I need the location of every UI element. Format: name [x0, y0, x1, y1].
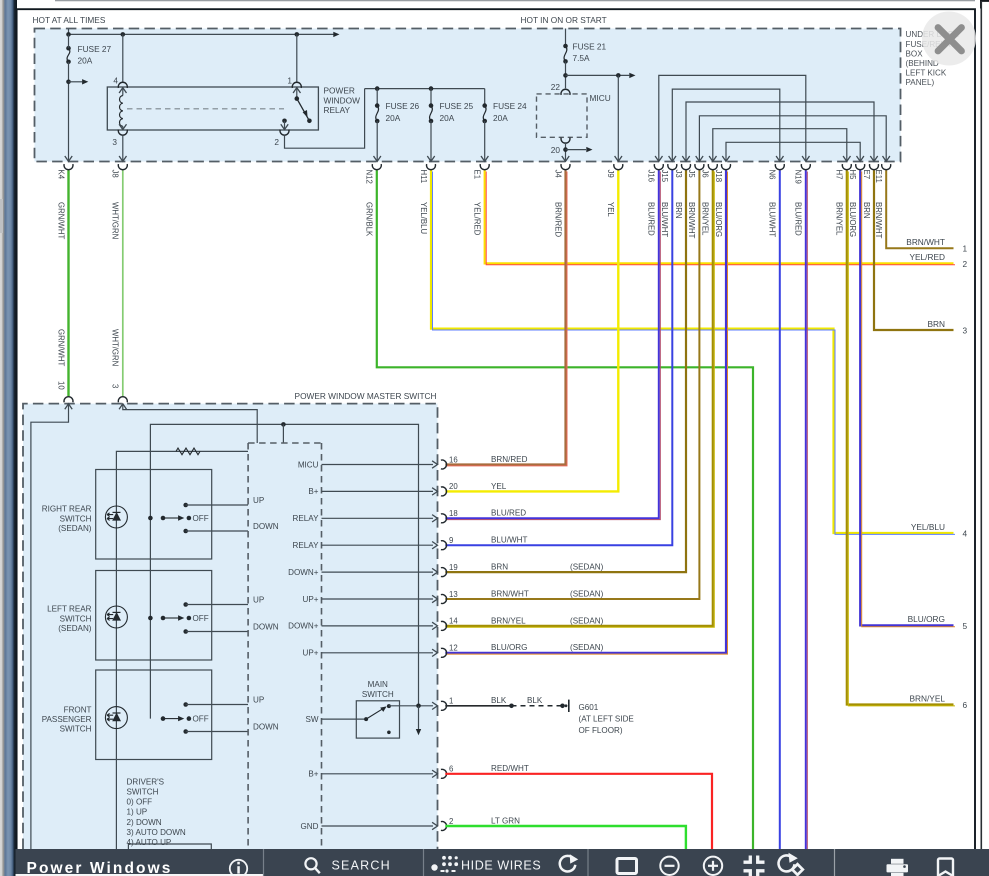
- ignition feed stub from top edge: [565, 29, 567, 47]
- wire MICU pin20 to J4 exit: [565, 142, 567, 161]
- zoom out icon: [660, 857, 678, 875]
- info icon: [230, 860, 247, 876]
- svg-text:19: 19: [449, 563, 458, 572]
- right rear switch OFF contact: [161, 516, 166, 521]
- relay pin 1 entry arrow: [293, 88, 300, 93]
- svg-text:YEL/BLU: YEL/BLU: [419, 202, 428, 234]
- wire LT GRN: [445, 826, 686, 849]
- svg-text:UP: UP: [253, 496, 264, 505]
- svg-text:20: 20: [449, 482, 458, 491]
- wire WHT/GRN from J8: [122, 170, 124, 396]
- right rear switch motor symbol: [105, 506, 127, 528]
- svg-text:(AT LEFT SIDE: (AT LEFT SIDE: [579, 715, 635, 724]
- svg-text:3) AUTO DOWN: 3) AUTO DOWN: [127, 828, 186, 837]
- underlying page right edge top segment: [981, 1, 989, 9]
- wire J9 drop inside box: [617, 75, 619, 161]
- MICU pin 22 connector bracket: [561, 89, 570, 95]
- connector J18 bracket: [722, 164, 731, 170]
- svg-text:FRONT: FRONT: [64, 705, 92, 714]
- svg-text:BLK: BLK: [491, 696, 507, 705]
- connector J4 bracket: [561, 164, 570, 170]
- svg-text:YEL/RED: YEL/RED: [473, 202, 482, 236]
- svg-text:J4: J4: [553, 170, 562, 179]
- relay pin 4 connector bracket: [118, 82, 127, 88]
- svg-text:5: 5: [963, 621, 968, 631]
- wire RED/WHT: [445, 774, 712, 849]
- svg-text:UP+: UP+: [303, 649, 319, 658]
- arrow K4 wire exits box: [65, 156, 72, 161]
- toolbar divider 3: [587, 849, 589, 876]
- top feed bus wire: [69, 33, 334, 35]
- svg-text:BLU/RED: BLU/RED: [794, 202, 803, 236]
- svg-text:2) DOWN: 2) DOWN: [127, 818, 162, 827]
- svg-text:RELAY: RELAY: [324, 105, 351, 115]
- svg-text:SW: SW: [305, 715, 318, 724]
- wire BRN/WHT from J5: [445, 170, 699, 599]
- search icon: [305, 858, 316, 869]
- svg-text:BLU/WHT: BLU/WHT: [660, 202, 669, 237]
- bridge wire J18-H5: [726, 142, 860, 161]
- svg-text:FUSE 21: FUSE 21: [573, 42, 607, 52]
- svg-text:PASSENGER: PASSENGER: [42, 715, 92, 724]
- pin20 branch arrow: [566, 149, 587, 151]
- fuse F24 symbol: [482, 103, 487, 108]
- inner block top dashed edge: [248, 442, 321, 444]
- wire BRN from J3: [445, 170, 686, 572]
- bridge wire J3-E7: [686, 102, 874, 161]
- under-dash fuse/relay box (dashed, blue fill): [35, 29, 901, 162]
- power window master switch box (dashed, blue fill): [23, 404, 438, 849]
- svg-text:18: 18: [449, 509, 458, 518]
- relay pin 2 exit arrow: [284, 121, 286, 130]
- svg-text:OFF: OFF: [193, 715, 209, 724]
- arrow J9 wire exits box: [615, 156, 622, 161]
- svg-text:E7: E7: [862, 170, 871, 180]
- svg-text:10: 10: [56, 381, 65, 390]
- branch wire to J9 and arrow: [566, 74, 630, 76]
- connector N19 bracket: [801, 164, 810, 170]
- svg-text:HOT IN ON OR START: HOT IN ON OR START: [521, 15, 607, 25]
- branch arrow right of fuse27: [69, 81, 83, 83]
- relay pin 2 connector bracket: [280, 130, 289, 136]
- svg-text:DOWN+: DOWN+: [288, 568, 319, 577]
- svg-text:3: 3: [963, 325, 968, 335]
- svg-text:BRN: BRN: [927, 319, 945, 329]
- wire to fuse25: [430, 89, 432, 106]
- wire BRN/WHT from E11: [886, 170, 953, 248]
- svg-text:BLU/ORG: BLU/ORG: [848, 202, 857, 237]
- svg-text:FUSE 26: FUSE 26: [386, 101, 420, 111]
- wire GRN/BLK from N12: [377, 170, 753, 849]
- svg-text:14: 14: [449, 617, 458, 626]
- svg-text:BLU/WHT: BLU/WHT: [491, 536, 527, 545]
- svg-text:12: 12: [449, 644, 458, 653]
- svg-text:SEARCH: SEARCH: [332, 859, 391, 873]
- svg-text:RELAY: RELAY: [293, 514, 320, 523]
- svg-text:N6: N6: [768, 170, 777, 180]
- svg-text:DRIVER'S: DRIVER'S: [127, 777, 165, 786]
- junction pin20 branch: [563, 147, 568, 152]
- svg-text:BRN: BRN: [862, 202, 871, 218]
- svg-text:GRN/BLK: GRN/BLK: [365, 202, 374, 237]
- main switch up contact: [387, 704, 391, 708]
- connector N6 bracket: [775, 164, 784, 170]
- svg-text:4: 4: [113, 75, 118, 85]
- svg-text:HIDE WIRES: HIDE WIRES: [461, 859, 541, 873]
- svg-text:N12: N12: [365, 170, 374, 184]
- svg-text:LEFT REAR: LEFT REAR: [47, 605, 92, 614]
- wire fuse21 to junction: [565, 61, 567, 88]
- svg-text:GRN/WHT: GRN/WHT: [56, 202, 65, 239]
- left rear switch motor symbol: [105, 606, 127, 628]
- bridge wire J16-N19: [659, 75, 806, 161]
- connector H11 bracket: [427, 164, 436, 170]
- toolbar divider 4: [834, 849, 836, 876]
- wire BRN/RED from J4: [445, 170, 565, 464]
- ground G601 terminal: [560, 704, 565, 709]
- wire BLU/ORG from H5: [860, 170, 953, 625]
- svg-text:4) AUTO UP: 4) AUTO UP: [127, 838, 172, 847]
- junction fuse21 branch: [563, 73, 568, 78]
- svg-text:BRN/RED: BRN/RED: [491, 455, 528, 464]
- wire BRN from E7: [874, 170, 954, 330]
- resistor R: [176, 448, 200, 455]
- feed bus end arrow: [333, 32, 339, 37]
- svg-text:H7: H7: [835, 170, 844, 180]
- wire to fuse26: [376, 89, 378, 106]
- svg-text:6: 6: [449, 765, 453, 774]
- svg-text:UP: UP: [253, 596, 264, 605]
- svg-text:YEL: YEL: [606, 202, 615, 217]
- browser window top edge line: [55, 0, 975, 2]
- junction pin1-vertical: [416, 704, 421, 709]
- wire resistor feed rail: [116, 451, 248, 849]
- main switch lever: [364, 717, 368, 721]
- arrow J8 wire exits box: [119, 156, 126, 161]
- svg-text:0) OFF: 0) OFF: [127, 798, 153, 807]
- pin 3 entry arrow: [119, 404, 126, 409]
- svg-text:20: 20: [551, 145, 561, 155]
- wire to fuse24: [484, 89, 486, 106]
- fuse F21 symbol: [563, 44, 568, 49]
- fuse F25 symbol: [429, 103, 434, 108]
- svg-text:BRN/WHT: BRN/WHT: [491, 589, 529, 598]
- connector H7 bracket: [842, 164, 851, 170]
- relay pin 1 connector bracket: [292, 82, 301, 88]
- left rear switch OFF contact: [161, 616, 166, 621]
- wire relay pin2 to fuse feed: [285, 89, 365, 149]
- bridge wire J15-N6: [672, 89, 780, 161]
- front passenger switch UP contact: [183, 702, 188, 707]
- connector J5 bracket: [695, 164, 704, 170]
- junction bus-relay pin1: [295, 32, 300, 37]
- active tab underline: [16, 874, 264, 876]
- dashed BLK segment: [512, 705, 563, 707]
- main switch box: [356, 701, 399, 738]
- svg-text:BLU/ORG: BLU/ORG: [908, 614, 945, 624]
- junction rail-off2: [148, 616, 153, 621]
- arrow N12 wire exits box: [374, 156, 381, 161]
- svg-text:(SEDAN): (SEDAN): [570, 643, 604, 652]
- svg-text:1: 1: [963, 244, 968, 254]
- svg-text:J5: J5: [687, 170, 696, 179]
- svg-text:POWER: POWER: [324, 86, 355, 96]
- MICU pin 20 connector bracket: [561, 138, 570, 144]
- wire pin10 internal (left rail): [31, 404, 69, 849]
- arrow J4 wire exits box: [562, 156, 569, 161]
- hide wires icon: [431, 864, 437, 870]
- front passenger switch DOWN contact: [183, 729, 188, 734]
- svg-text:BRN/YEL: BRN/YEL: [701, 202, 710, 236]
- svg-text:SWITCH: SWITCH: [362, 690, 394, 699]
- front passenger switch box: [96, 670, 212, 760]
- svg-text:FUSE 25: FUSE 25: [440, 101, 474, 111]
- MICU box (dashed): [537, 94, 588, 137]
- connector N12 bracket: [372, 164, 381, 170]
- svg-text:3: 3: [112, 137, 117, 147]
- left rear switch DOWN contact: [183, 629, 188, 634]
- connector J6 bracket: [708, 164, 717, 170]
- svg-text:20A: 20A: [78, 55, 93, 65]
- wire YEL/BLU from H11: [431, 170, 954, 533]
- svg-text:13: 13: [449, 590, 458, 599]
- svg-text:SWITCH: SWITCH: [127, 788, 159, 797]
- svg-text:1: 1: [287, 75, 292, 85]
- left strip scrollbar patch: [0, 199, 3, 233]
- svg-text:9: 9: [449, 536, 453, 545]
- junction feed-fuse25: [429, 86, 434, 91]
- connector J3 bracket: [682, 164, 691, 170]
- wire fuse24 to E1 exit: [484, 121, 486, 161]
- junction rail-off1: [148, 516, 153, 521]
- svg-text:J3: J3: [674, 170, 683, 178]
- svg-text:WHT/GRN: WHT/GRN: [111, 329, 120, 366]
- svg-text:OFF: OFF: [193, 514, 209, 523]
- connector J15 bracket: [668, 164, 677, 170]
- wire BLU/WHT from N6: [779, 170, 781, 849]
- svg-text:BLU/RED: BLU/RED: [647, 202, 656, 236]
- pin 10 entry bracket: [64, 397, 73, 403]
- svg-text:BRN/RED: BRN/RED: [553, 202, 562, 237]
- svg-text:2: 2: [449, 817, 453, 826]
- svg-text:J18: J18: [714, 170, 723, 183]
- svg-text:BLK: BLK: [527, 696, 543, 705]
- wire bus to relay pin 1: [296, 34, 298, 81]
- svg-text:DOWN: DOWN: [253, 522, 279, 531]
- wire pin3 internal: [123, 404, 257, 443]
- connector K4 bracket: [64, 164, 73, 170]
- wire BLU/ORG from J18: [445, 170, 726, 653]
- svg-text:UP: UP: [253, 696, 264, 705]
- junction fuse27 branch: [66, 80, 71, 85]
- svg-text:22: 22: [551, 82, 561, 92]
- inner block left dashed edge: [247, 443, 249, 849]
- svg-text:LT GRN: LT GRN: [491, 816, 520, 825]
- svg-text:SWITCH: SWITCH: [60, 724, 92, 733]
- junction bus-relay pin4: [121, 32, 126, 37]
- svg-text:BRN/WHT: BRN/WHT: [906, 237, 945, 247]
- svg-text:J8: J8: [111, 170, 120, 178]
- wire fuse26 to N12 exit: [376, 121, 378, 161]
- window left edge strip: [0, 0, 17, 876]
- svg-text:DOWN+: DOWN+: [288, 622, 319, 631]
- arrow H11 wire exits box: [427, 156, 434, 161]
- svg-text:J16: J16: [647, 170, 656, 183]
- svg-text:2: 2: [274, 137, 279, 147]
- pin 1 row wire: [389, 705, 433, 707]
- svg-text:N19: N19: [794, 170, 803, 184]
- svg-text:B+: B+: [308, 487, 318, 496]
- svg-text:4: 4: [963, 528, 968, 538]
- bottom toolbar: [16, 849, 989, 876]
- front passenger switch OFF contact: [161, 716, 166, 721]
- connector J8 bracket: [118, 164, 127, 170]
- toolbar divider 1: [263, 849, 265, 876]
- svg-text:H11: H11: [419, 170, 428, 184]
- relay coil: [120, 96, 123, 127]
- svg-text:HOT AT ALL TIMES: HOT AT ALL TIMES: [33, 15, 106, 25]
- svg-text:20A: 20A: [493, 113, 508, 123]
- svg-text:MICU: MICU: [298, 460, 319, 469]
- bridge wire J6-H7: [713, 129, 847, 162]
- svg-text:BRN/WHT: BRN/WHT: [687, 202, 696, 239]
- connector J9 bracket: [614, 164, 623, 170]
- right rear switch box: [96, 470, 212, 560]
- zoom in icon: [704, 857, 722, 875]
- svg-text:Power Windows: Power Windows: [27, 860, 173, 876]
- svg-text:(SEDAN): (SEDAN): [58, 524, 92, 533]
- arrow below junction: [418, 706, 420, 729]
- wire bus to relay pin 4: [122, 34, 124, 81]
- front passenger switch motor symbol: [105, 707, 127, 729]
- svg-text:BRN: BRN: [491, 563, 508, 572]
- bookmark icon: [938, 859, 953, 876]
- junction BLK: [509, 704, 514, 709]
- connector J16 bracket: [654, 164, 663, 170]
- wire fuse27 to K4 exit: [68, 34, 70, 48]
- svg-text:GRN/WHT: GRN/WHT: [56, 329, 65, 366]
- junction feed-fuse26: [375, 86, 380, 91]
- wire YEL from J9: [445, 170, 618, 491]
- stop/full icon: [617, 859, 637, 874]
- svg-text:BOX: BOX: [906, 49, 924, 58]
- svg-text:SWITCH: SWITCH: [60, 614, 92, 623]
- junction switched rail to block: [281, 422, 286, 427]
- wire YEL/RED from E1: [485, 170, 954, 263]
- wire BLU/RED from N19: [805, 170, 807, 849]
- compress icon: [744, 856, 765, 876]
- svg-text:RIGHT REAR: RIGHT REAR: [42, 505, 92, 514]
- print icon: [891, 859, 904, 864]
- relay switch contact common: [295, 96, 300, 101]
- refresh icon: [560, 856, 576, 872]
- svg-text:OFF: OFF: [193, 614, 209, 623]
- svg-text:J15: J15: [660, 170, 669, 183]
- right rear switch DOWN contact: [183, 529, 188, 534]
- wire BLK pin1: [445, 705, 511, 707]
- wire relay pin3 to J8 exit: [122, 135, 124, 161]
- svg-text:16: 16: [449, 455, 458, 464]
- fuse F27 symbol: [66, 46, 71, 51]
- main switch down contact: [387, 731, 391, 735]
- svg-text:7.5A: 7.5A: [573, 53, 591, 63]
- svg-text:LEFT KICK: LEFT KICK: [906, 69, 947, 78]
- svg-text:POWER WINDOW MASTER SWITCH: POWER WINDOW MASTER SWITCH: [295, 391, 437, 401]
- left rear switch box: [96, 571, 212, 661]
- relay pin 2 contact: [282, 119, 287, 124]
- connector H5 bracket: [856, 164, 865, 170]
- arrow E1 wire exits box: [481, 156, 488, 161]
- svg-text:BLU/RED: BLU/RED: [491, 509, 526, 518]
- relay pin 3 connector bracket: [118, 130, 127, 136]
- svg-text:GND: GND: [301, 822, 319, 831]
- wire BRN/YEL from J6: [445, 170, 713, 626]
- svg-text:BLU/ORG: BLU/ORG: [714, 202, 723, 237]
- inner block right dashed edge: [321, 443, 323, 849]
- relay pin 3 exit arrow inside: [119, 124, 126, 129]
- svg-text:(SEDAN): (SEDAN): [570, 589, 604, 598]
- power feed stub from top edge: [68, 29, 70, 35]
- relay switch lever: [297, 99, 310, 121]
- wire BLU/WHT from J15: [445, 170, 672, 545]
- svg-text:BRN/YEL: BRN/YEL: [835, 202, 844, 236]
- underlying page right border line: [980, 1, 982, 849]
- svg-text:E11: E11: [874, 170, 883, 183]
- svg-text:1: 1: [449, 697, 453, 706]
- svg-text:BLU/WHT: BLU/WHT: [768, 202, 777, 237]
- wire BRN/YEL from H7: [847, 170, 954, 704]
- relay internal dashed link: [127, 108, 284, 110]
- wire BLU/RED from J16: [445, 170, 659, 518]
- close button circle: [922, 12, 976, 66]
- driver's switch box (clipped): [128, 844, 211, 849]
- svg-text:20A: 20A: [440, 113, 455, 123]
- connector E1 bracket: [480, 164, 489, 170]
- junction branch-J9: [616, 73, 621, 78]
- close button X: [938, 28, 962, 52]
- svg-text:1) UP: 1) UP: [127, 808, 148, 817]
- svg-text:B+: B+: [308, 770, 318, 779]
- svg-text:20A: 20A: [386, 113, 401, 123]
- SW row wire: [322, 718, 367, 720]
- svg-text:K4: K4: [56, 170, 65, 180]
- bridge wire J5-E11: [699, 116, 886, 162]
- svg-text:OF FLOOR): OF FLOOR): [579, 726, 623, 735]
- relay pin 4 entry arrow: [119, 88, 126, 93]
- fuse feed bus 26/25/24: [365, 88, 485, 90]
- svg-text:MICU: MICU: [590, 93, 611, 103]
- svg-text:WHT/GRN: WHT/GRN: [111, 202, 120, 239]
- svg-text:J6: J6: [701, 170, 710, 178]
- svg-text:PANEL): PANEL): [906, 78, 935, 87]
- svg-text:BRN: BRN: [674, 202, 683, 218]
- right rear switch UP contact: [183, 503, 188, 508]
- wire GRN/WHT from K4: [67, 170, 69, 396]
- svg-text:J9: J9: [606, 170, 615, 178]
- svg-text:YEL/RED: YEL/RED: [909, 252, 945, 262]
- svg-text:DOWN: DOWN: [253, 723, 279, 732]
- svg-text:MAIN: MAIN: [368, 680, 388, 689]
- connector E11 bracket: [882, 164, 891, 170]
- svg-text:YEL: YEL: [491, 482, 507, 491]
- svg-text:(SEDAN): (SEDAN): [58, 624, 92, 633]
- svg-text:2: 2: [963, 259, 968, 269]
- svg-text:DOWN: DOWN: [253, 623, 279, 632]
- svg-text:BLU/ORG: BLU/ORG: [491, 643, 527, 652]
- svg-text:RED/WHT: RED/WHT: [491, 764, 529, 773]
- svg-text:BRN/WHT: BRN/WHT: [874, 202, 883, 239]
- svg-text:WINDOW: WINDOW: [324, 95, 361, 105]
